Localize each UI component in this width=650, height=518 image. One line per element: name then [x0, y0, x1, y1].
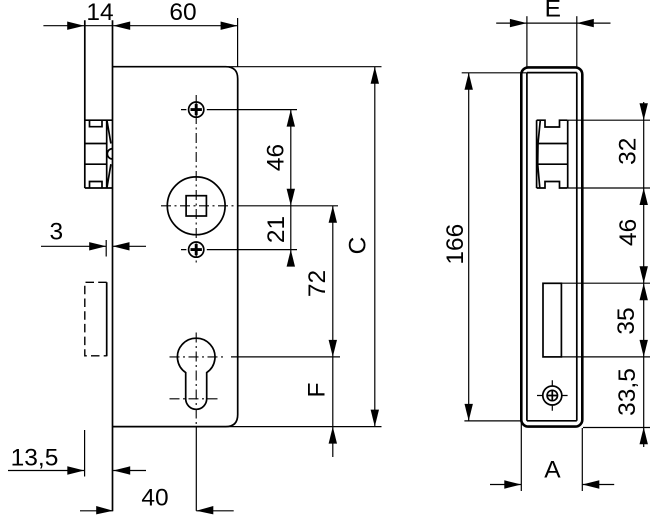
svg-text:14: 14 — [86, 0, 113, 26]
dimensions 46 / 21 — [290, 110, 292, 266]
svg-text:33,5: 33,5 — [614, 368, 641, 416]
svg-text:32: 32 — [615, 138, 642, 165]
lock case behind forend — [527, 73, 577, 421]
svg-text:72: 72 — [304, 270, 331, 297]
dimensions 72 / F — [332, 206, 334, 457]
svg-text:A: A — [544, 457, 561, 484]
spindle hub circle — [167, 177, 225, 235]
screw hole (side view) — [543, 386, 562, 405]
dimension 60 — [113, 25, 237, 27]
svg-text:35: 35 — [613, 307, 640, 334]
svg-text:3: 3 — [49, 219, 63, 246]
dimension A — [520, 421, 522, 491]
centerlines (front view) — [195, 95, 197, 264]
latch bolt (front view) — [85, 120, 113, 188]
svg-text:166: 166 — [442, 224, 469, 265]
svg-text:60: 60 — [169, 0, 196, 26]
svg-text:C: C — [345, 237, 372, 255]
dimension C — [225, 66, 381, 68]
svg-text:46: 46 — [615, 219, 642, 246]
dimension 166 — [462, 72, 527, 74]
deadbolt slot (side view) — [543, 283, 561, 357]
bottom screw hole — [189, 242, 204, 257]
dimension 40 — [80, 510, 113, 512]
dimension 14 — [43, 25, 112, 27]
top screw hole — [189, 102, 204, 117]
svg-text:13,5: 13,5 — [11, 444, 59, 471]
svg-text:40: 40 — [141, 485, 168, 512]
forend plate outline (side view) — [521, 67, 582, 426]
latch bolt (side view) — [537, 120, 568, 188]
dimension E — [496, 22, 610, 24]
europrofile cylinder hole — [177, 338, 215, 409]
dimension 13,5 — [84, 430, 86, 477]
lock case outline (front view) — [113, 67, 238, 427]
faceplate front edge — [84, 20, 86, 188]
hidden (dashed) forend lower part — [85, 282, 107, 356]
right dimension chain 32/46/35/33,5 — [568, 119, 650, 121]
svg-text:46: 46 — [263, 144, 290, 171]
spindle square hole — [186, 196, 206, 216]
dimension 3 — [105, 240, 107, 257]
svg-text:21: 21 — [263, 216, 290, 243]
case left edge / extension line — [112, 20, 114, 511]
svg-text:F: F — [304, 383, 331, 398]
svg-text:E: E — [545, 0, 561, 23]
